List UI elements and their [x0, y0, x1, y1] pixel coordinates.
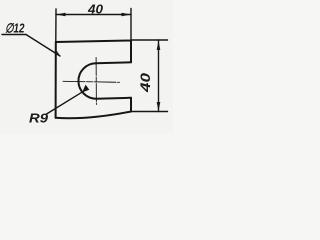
leader shelf dia12 — [2, 34, 26, 36]
slot bottom edge — [96, 97, 131, 100]
plate left edge — [55, 42, 57, 118]
slot end arc R9 — [78, 63, 96, 98]
svg-text:40: 40 — [138, 72, 153, 93]
arrowhead dia12 leader — [55, 51, 61, 57]
extension line right (top dim) — [130, 9, 132, 41]
svg-text:∅12: ∅12 — [5, 21, 25, 36]
extension line top (right dim) — [131, 39, 168, 41]
centerline horizontal — [63, 81, 120, 82]
slot top edge — [96, 62, 131, 63]
arrowhead R9 leader — [82, 85, 89, 93]
leader line dia12 — [26, 35, 60, 57]
extension line bottom (right dim) — [131, 111, 168, 113]
svg-text:40: 40 — [87, 2, 104, 17]
plate bottom edge — [56, 112, 131, 119]
leader line R9 — [47, 92, 83, 114]
arrow left (top dim) — [56, 13, 66, 17]
svg-text:R9: R9 — [29, 111, 49, 126]
arrow up (right dim) — [157, 41, 161, 51]
arrow right (top dim) — [122, 13, 132, 17]
extension line left (top dim) — [55, 9, 57, 42]
plate right edge upper segment — [130, 41, 132, 63]
dimension line 40 right — [158, 40, 160, 112]
centerline vertical — [95, 58, 97, 105]
dimension line 40 top — [56, 14, 131, 16]
arrow down (right dim) — [157, 102, 161, 112]
plate top edge — [56, 41, 131, 43]
plate right edge lower segment — [130, 98, 132, 112]
